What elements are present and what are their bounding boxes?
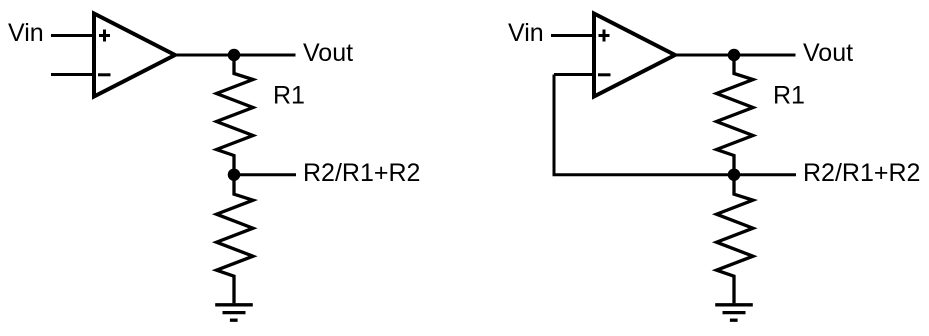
svg-text:R1: R1 xyxy=(773,82,805,110)
svg-text:Vout: Vout xyxy=(303,39,353,67)
svg-text:Vout: Vout xyxy=(803,39,853,67)
svg-text:Vin: Vin xyxy=(508,19,544,47)
svg-text:R1: R1 xyxy=(273,82,305,110)
svg-text:R2/R1+R2: R2/R1+R2 xyxy=(303,159,420,187)
svg-text:Vin: Vin xyxy=(8,19,44,47)
svg-text:R2/R1+R2: R2/R1+R2 xyxy=(803,159,920,187)
